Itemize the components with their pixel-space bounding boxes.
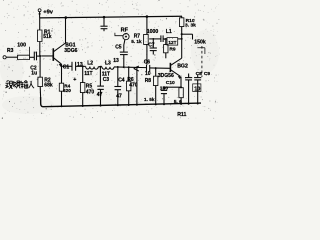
svg-text:C6: C6 bbox=[144, 59, 151, 65]
svg-text:C1: C1 bbox=[63, 65, 70, 71]
svg-text:47: 47 bbox=[97, 92, 103, 98]
svg-text:3DG56: 3DG56 bbox=[158, 73, 174, 79]
svg-text:C7: C7 bbox=[148, 42, 155, 48]
svg-text:51k: 51k bbox=[43, 34, 52, 40]
svg-text:150k: 150k bbox=[194, 40, 206, 46]
svg-text:100: 100 bbox=[17, 43, 26, 49]
svg-text:11T: 11T bbox=[84, 71, 92, 77]
svg-text:5. 6: 5. 6 bbox=[174, 99, 182, 105]
svg-text:3. 3k: 3. 3k bbox=[185, 23, 196, 29]
svg-text:620: 620 bbox=[63, 88, 71, 93]
svg-text:+9v: +9v bbox=[43, 9, 53, 15]
svg-text:+: + bbox=[73, 77, 76, 83]
svg-text:R3: R3 bbox=[7, 48, 14, 54]
svg-text:L2: L2 bbox=[87, 61, 93, 67]
svg-text:47: 47 bbox=[116, 93, 122, 99]
svg-text:12T: 12T bbox=[168, 40, 176, 45]
svg-text:68k: 68k bbox=[44, 82, 53, 88]
svg-text:C8: C8 bbox=[196, 71, 203, 77]
svg-text:C3: C3 bbox=[103, 77, 110, 83]
svg-text:470: 470 bbox=[129, 82, 138, 88]
svg-text:C5: C5 bbox=[115, 44, 122, 50]
svg-text:470: 470 bbox=[86, 90, 95, 96]
svg-text:L3: L3 bbox=[105, 61, 111, 67]
svg-text:11T: 11T bbox=[102, 72, 110, 78]
svg-text:13: 13 bbox=[113, 58, 119, 64]
svg-text:1u: 1u bbox=[31, 71, 37, 77]
svg-text:R5: R5 bbox=[86, 83, 93, 89]
svg-text:C10: C10 bbox=[166, 80, 175, 86]
svg-text:3DG6: 3DG6 bbox=[64, 48, 77, 54]
svg-text:RF: RF bbox=[121, 28, 129, 34]
svg-text:R11: R11 bbox=[177, 112, 186, 118]
svg-text:R9: R9 bbox=[169, 46, 176, 52]
svg-text:C9: C9 bbox=[204, 71, 211, 77]
svg-text:5. 1k: 5. 1k bbox=[131, 39, 142, 44]
svg-text:150: 150 bbox=[160, 86, 168, 92]
svg-text:13: 13 bbox=[77, 62, 83, 68]
svg-text:BG2: BG2 bbox=[177, 64, 188, 70]
svg-text:1000: 1000 bbox=[147, 29, 159, 35]
svg-text:1. 5k: 1. 5k bbox=[144, 97, 155, 102]
svg-text:C4: C4 bbox=[118, 78, 125, 84]
svg-text:10: 10 bbox=[145, 71, 151, 77]
svg-text:R8: R8 bbox=[145, 78, 152, 84]
svg-text:10: 10 bbox=[194, 86, 200, 92]
svg-text:L1: L1 bbox=[166, 29, 172, 35]
